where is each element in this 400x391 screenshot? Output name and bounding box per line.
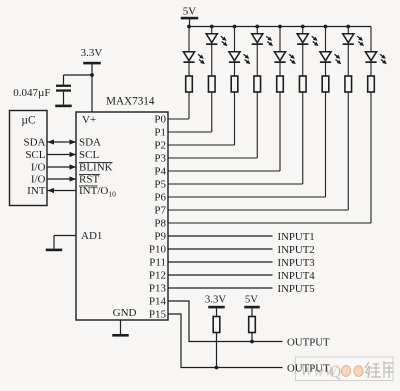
svg-text:V+: V+	[82, 114, 96, 126]
svg-text:INPUT2: INPUT2	[278, 244, 315, 256]
svg-text:P8: P8	[154, 218, 166, 230]
svg-text:INPUT5: INPUT5	[278, 283, 315, 295]
svg-text:I/O: I/O	[31, 174, 46, 186]
svg-text:OUTPUT: OUTPUT	[287, 336, 330, 348]
svg-text:P2: P2	[154, 140, 166, 152]
svg-text:P4: P4	[154, 166, 166, 178]
svg-text:P7: P7	[154, 205, 166, 217]
svg-text:P14: P14	[149, 296, 167, 308]
svg-text:µC: µC	[21, 115, 36, 127]
svg-text:OUTPUT: OUTPUT	[287, 362, 330, 374]
svg-text:5V: 5V	[245, 294, 258, 306]
svg-text:P11: P11	[149, 257, 166, 269]
svg-text:SDA: SDA	[79, 137, 101, 149]
svg-text:GND: GND	[113, 307, 137, 319]
svg-text:P1: P1	[154, 127, 166, 139]
svg-text:P5: P5	[154, 179, 166, 191]
svg-text:I/O: I/O	[31, 162, 46, 174]
svg-text:P13: P13	[149, 283, 167, 295]
svg-text:AD1: AD1	[81, 230, 102, 242]
svg-text:P15: P15	[149, 309, 167, 321]
svg-text:INPUT4: INPUT4	[278, 270, 316, 282]
svg-text:INPUT3: INPUT3	[278, 257, 315, 269]
svg-text:SCL: SCL	[25, 149, 45, 161]
svg-text:0.047µF: 0.047µF	[13, 87, 50, 99]
svg-text:3.3V: 3.3V	[81, 47, 103, 59]
svg-text:P6: P6	[154, 192, 166, 204]
svg-text:P0: P0	[154, 114, 166, 126]
svg-text:P9: P9	[154, 231, 166, 243]
svg-text:3.3V: 3.3V	[205, 294, 226, 306]
svg-text:SDA: SDA	[23, 137, 45, 149]
svg-text:Q: Q	[329, 362, 341, 381]
svg-text:P3: P3	[154, 153, 166, 165]
svg-text:P10: P10	[149, 244, 167, 256]
svg-text:P12: P12	[149, 270, 166, 282]
svg-text:MAX7314: MAX7314	[106, 96, 155, 108]
svg-text:INT: INT	[27, 185, 46, 197]
svg-text:SCL: SCL	[79, 149, 99, 161]
svg-text:5V: 5V	[183, 6, 197, 18]
svg-text:INPUT1: INPUT1	[278, 231, 315, 243]
svg-text:RST: RST	[79, 174, 99, 186]
svg-text:BLINK: BLINK	[79, 162, 113, 174]
